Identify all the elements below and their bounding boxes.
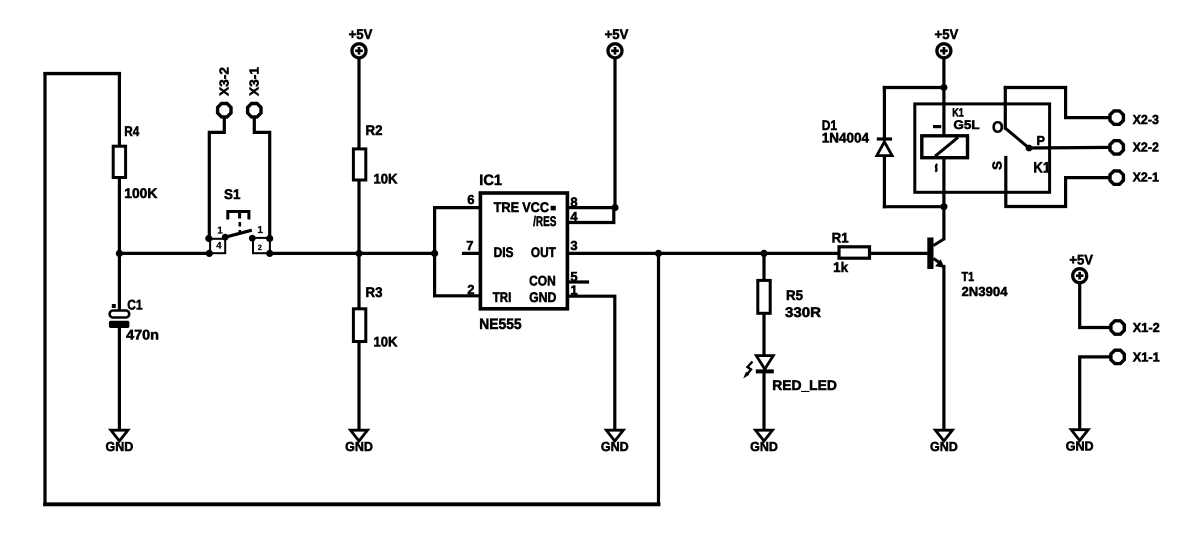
wire node to R3 — [357, 253, 360, 308]
wire +5V X1 drop — [1080, 284, 1109, 328]
svg-text:6: 6 — [467, 192, 474, 207]
wire relay O to X2-3 — [1005, 88, 1108, 118]
wire coil bottom — [942, 158, 945, 207]
wire R5 to LED — [762, 313, 765, 355]
wire coil top — [942, 88, 945, 137]
wire pin4 loop — [569, 208, 614, 223]
svg-text:470n: 470n — [126, 326, 159, 342]
svg-text:/RES: /RES — [533, 213, 556, 229]
svg-text:R1: R1 — [832, 230, 849, 246]
resistor R3 — [353, 284, 397, 350]
svg-text:GND: GND — [930, 439, 958, 454]
svg-text:1: 1 — [217, 225, 223, 236]
svg-text:R3: R3 — [366, 284, 383, 300]
svg-text:2N3904: 2N3904 — [962, 284, 1009, 299]
wire D1 bottom link — [884, 205, 944, 208]
relay coil — [922, 136, 968, 158]
svg-text:10K: 10K — [374, 171, 398, 187]
wire +5V relay drop — [942, 59, 945, 88]
svg-text:R4: R4 — [124, 123, 139, 139]
svg-text:X2-3: X2-3 — [1133, 112, 1159, 127]
wire pin6 — [435, 206, 479, 209]
svg-text:+5V: +5V — [935, 26, 959, 42]
diode D1 — [822, 117, 892, 156]
svg-text:1: 1 — [570, 283, 577, 298]
wire bottom feedback — [45, 502, 659, 506]
svg-text:X1-2: X1-2 — [1133, 320, 1160, 335]
svg-text:R5: R5 — [786, 287, 803, 303]
wire pin8 — [569, 206, 615, 209]
ground GND X1 — [1066, 430, 1094, 454]
svg-text:2: 2 — [258, 243, 262, 252]
svg-text:X3-2: X3-2 — [217, 67, 232, 96]
wire relay S terminal — [1006, 158, 1109, 207]
wire R5 branch down — [762, 253, 765, 280]
emission arrow — [746, 362, 753, 377]
contact square right — [253, 238, 270, 253]
contact square left — [210, 239, 225, 253]
coil tilde pin name — [935, 164, 937, 171]
capacitor C1 — [109, 297, 159, 343]
svg-text:+5V: +5V — [349, 26, 373, 42]
ground GND C1 — [106, 430, 134, 454]
ground GND T1 — [930, 430, 958, 454]
resistor R4 — [113, 123, 157, 201]
wire X3-1 drop — [254, 118, 269, 238]
switch lever — [225, 230, 252, 237]
junction node TRE/TRI — [431, 250, 438, 257]
svg-text:P: P — [1037, 133, 1046, 148]
wire D1 top link — [884, 86, 944, 89]
wire top left — [45, 72, 119, 75]
junction node R5 branch — [760, 250, 767, 257]
ground GND LED — [750, 430, 778, 454]
svg-text:1: 1 — [257, 225, 263, 236]
svg-text:3: 3 — [570, 238, 577, 253]
LED RED_LED — [743, 356, 837, 393]
supply +5V relay — [935, 26, 959, 58]
svg-text:GND: GND — [601, 439, 629, 454]
svg-text:NE555: NE555 — [479, 316, 521, 333]
svg-text:DIS: DIS — [494, 244, 514, 260]
svg-text:CON: CON — [529, 273, 556, 289]
wire C1 to GND — [118, 328, 121, 431]
svg-text:X3-1: X3-1 — [247, 67, 262, 96]
svg-text:4: 4 — [216, 241, 222, 252]
connector X2-2 — [1110, 140, 1159, 155]
resistor R5 — [758, 280, 821, 320]
svg-text:TRI: TRI — [493, 289, 512, 305]
svg-text:X2-1: X2-1 — [1133, 170, 1159, 185]
svg-text:1N4004: 1N4004 — [822, 130, 870, 146]
wire pin3 OUT — [569, 252, 839, 255]
connector X2-3 — [1110, 111, 1159, 127]
wire S1 to R2R3 node — [270, 252, 435, 255]
relay K1 box — [915, 104, 1050, 192]
junction node coil/collector — [940, 203, 947, 210]
svg-text:10K: 10K — [374, 334, 398, 350]
wire pin7 stub — [464, 252, 479, 255]
connector X1-2 — [1111, 320, 1160, 335]
svg-text:2: 2 — [467, 282, 474, 297]
wire pin1 to GND — [569, 296, 615, 430]
svg-text:+5V: +5V — [605, 26, 629, 42]
wire D1 upper — [883, 88, 886, 140]
wire node to S1 — [119, 252, 209, 255]
supply +5V X1 — [1069, 252, 1093, 283]
contact lever — [1005, 128, 1029, 148]
ground GND R3 — [345, 430, 373, 454]
svg-text:G5L: G5L — [953, 118, 980, 132]
wire R3 to GND — [357, 342, 360, 431]
relay contact K1 — [990, 120, 1051, 177]
wire LED to GND — [762, 372, 765, 431]
wire X3-2 drop — [209, 118, 224, 238]
svg-text:GND: GND — [750, 439, 778, 454]
pin dot lever left — [222, 234, 229, 241]
wire feedback riser to OUT — [657, 253, 660, 504]
svg-text:IC1: IC1 — [479, 172, 502, 189]
wire relay O terminal — [1004, 88, 1007, 129]
ground GND IC pin1 — [601, 430, 629, 454]
op-amp/IC U1 NE555 box — [466, 172, 578, 333]
connector X1-1 — [1111, 349, 1160, 364]
resistor R2 — [353, 122, 397, 187]
connector X3-2 — [217, 67, 232, 117]
svg-text:OUT: OUT — [531, 244, 556, 260]
wire pin2 — [435, 294, 479, 297]
wire D1 lower — [883, 156, 886, 207]
junction node R4/S1 — [116, 250, 123, 257]
wire T1 emitter to GND — [942, 267, 945, 431]
svg-text:+5V: +5V — [1069, 252, 1093, 268]
svg-text:O: O — [992, 120, 1004, 137]
wire +5V to R2 — [357, 59, 360, 149]
svg-text:GND: GND — [1066, 438, 1094, 453]
svg-text:330R: 330R — [785, 304, 821, 320]
switch S1 — [205, 186, 273, 257]
wire R4 bottom to node — [118, 178, 121, 311]
wire TRE-TRI link — [433, 208, 436, 296]
wire R1 to T1 base — [870, 252, 928, 255]
svg-text:RED_LED: RED_LED — [772, 377, 837, 393]
svg-text:GND: GND — [529, 289, 556, 305]
actuator bracket — [228, 212, 249, 220]
actuator dashed stem — [239, 222, 242, 234]
wire R4 top — [118, 74, 121, 147]
junction node relay +5V — [940, 84, 947, 91]
wire relay P to X2-2 — [1029, 146, 1108, 150]
svg-text:T1: T1 — [962, 269, 975, 284]
svg-text:8: 8 — [570, 195, 577, 210]
svg-text:GND: GND — [345, 439, 373, 454]
wire pin5 stub — [569, 280, 587, 283]
wire coil node to T1 collector — [942, 207, 945, 239]
svg-text:GND: GND — [106, 439, 134, 454]
svg-text:S: S — [990, 161, 1005, 170]
svg-text:K1: K1 — [1033, 160, 1050, 177]
svg-text:7: 7 — [466, 238, 473, 253]
wire +5V to pin8 — [613, 59, 616, 208]
svg-text:100K: 100K — [124, 185, 157, 201]
svg-text:C1: C1 — [127, 297, 142, 313]
pin dot right top — [266, 235, 273, 242]
resistor R1 — [832, 230, 870, 275]
connector X3-1 — [247, 67, 262, 117]
wire R2 to node — [357, 180, 360, 253]
supply +5V R2 — [349, 26, 373, 58]
junction node pin8 +5V — [611, 204, 618, 211]
junction node R2/R3 — [355, 250, 362, 257]
svg-text:S1: S1 — [224, 186, 241, 202]
pin dot left bottom — [206, 250, 213, 257]
svg-text:X2-2: X2-2 — [1133, 140, 1159, 155]
svg-text:X1-1: X1-1 — [1133, 349, 1160, 364]
svg-text:1k: 1k — [833, 259, 848, 275]
svg-text:4: 4 — [570, 209, 578, 224]
wire left loop vertical — [43, 74, 46, 505]
coil minus pin name — [933, 125, 941, 128]
pin dot right bottom — [266, 250, 273, 257]
wire X1-1 to GND — [1080, 357, 1109, 430]
transistor T1 — [927, 238, 1008, 300]
svg-text:R2: R2 — [366, 122, 383, 138]
pin dot left top — [205, 235, 212, 242]
connector X2-1 — [1110, 170, 1159, 185]
junction node OUT/feedback — [655, 250, 662, 257]
pin dot lever right — [249, 235, 256, 242]
svg-text:TRE: TRE — [494, 199, 519, 215]
supply +5V IC — [605, 26, 629, 58]
